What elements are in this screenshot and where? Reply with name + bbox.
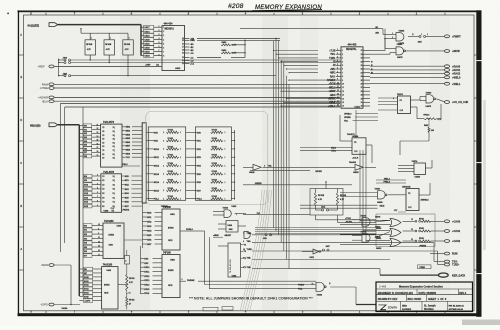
svg-text:#208: #208 <box>228 3 244 10</box>
